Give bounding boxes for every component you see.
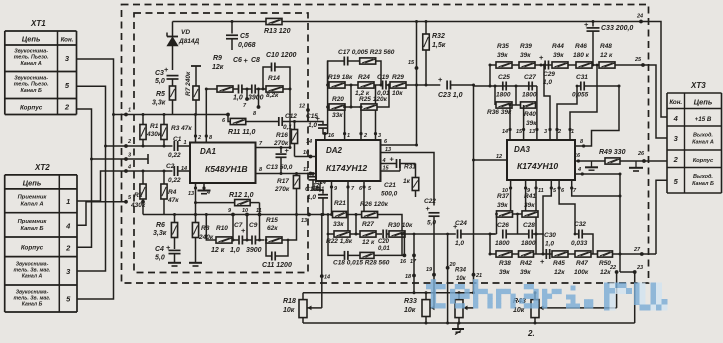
svg-text:C7: C7 xyxy=(234,222,243,229)
pad 12 xyxy=(306,108,310,112)
resistor R45 12к xyxy=(552,251,568,276)
svg-text:R15: R15 xyxy=(266,217,278,224)
svg-text:10: 10 xyxy=(303,150,309,156)
svg-text:Канал Б: Канал Б xyxy=(22,302,43,308)
svg-text:10к: 10к xyxy=(392,90,403,97)
resistor R9 12к xyxy=(212,55,233,92)
DA2 pin 9 stub xyxy=(331,181,333,215)
svg-text:39к: 39к xyxy=(497,52,508,59)
DA3 pin 16 wire and R49 330 xyxy=(574,149,644,170)
svg-text:R9: R9 xyxy=(213,55,222,62)
svg-text:R16: R16 xyxy=(276,132,288,139)
svg-text:Выход.: Выход. xyxy=(693,133,713,139)
svg-text:Корпус: Корпус xyxy=(21,245,44,252)
svg-text:Приемник: Приемник xyxy=(18,195,48,201)
svg-text:C29: C29 xyxy=(543,71,555,78)
svg-text:1,0: 1,0 xyxy=(230,247,240,254)
wire XT1 pin2 to pad 3 xyxy=(77,109,127,159)
svg-text:1,0: 1,0 xyxy=(455,240,464,247)
svg-text:27: 27 xyxy=(633,247,641,253)
pad 2 xyxy=(124,144,128,148)
svg-text:Выход.: Выход. xyxy=(693,174,713,180)
svg-text:DA3: DA3 xyxy=(514,145,531,154)
svg-text:R39: R39 xyxy=(520,43,532,50)
long wire lower xyxy=(303,322,635,324)
DA3 pin 7 riser xyxy=(572,180,620,196)
svg-text:R14: R14 xyxy=(268,75,280,82)
svg-text:DA1: DA1 xyxy=(200,147,217,156)
resistor R36 39к row xyxy=(487,85,512,117)
capacitor C16 1,0 xyxy=(305,183,328,216)
svg-text:XT1: XT1 xyxy=(30,19,46,28)
svg-text:+: + xyxy=(438,75,443,84)
svg-text:39к: 39к xyxy=(526,120,537,127)
resistor R39 39к xyxy=(519,43,535,68)
pin2 riser xyxy=(360,106,363,109)
DA1 pin 4 ground xyxy=(203,183,205,190)
resistor R3 47к xyxy=(161,113,192,146)
svg-text:C3: C3 xyxy=(155,70,164,77)
svg-text:1: 1 xyxy=(128,108,131,114)
svg-text:Приемник: Приемник xyxy=(18,219,48,225)
svg-text:R11 11,0: R11 11,0 xyxy=(228,129,255,136)
node 9 stub xyxy=(232,239,235,242)
capacitor C31 0,055 xyxy=(572,74,619,99)
DA3 pin 11 riser xyxy=(535,180,537,254)
wire pad1 input xyxy=(126,114,228,116)
svg-text:R45: R45 xyxy=(553,260,565,267)
node 21 column xyxy=(473,160,475,293)
node 7 stub xyxy=(242,88,252,90)
DA2 pin 13 wire xyxy=(381,153,435,206)
resistor R40 39к row xyxy=(512,85,537,128)
svg-text:1,0: 1,0 xyxy=(308,122,317,129)
resistor R6 3,3к xyxy=(153,213,178,249)
svg-text:C19: C19 xyxy=(377,74,389,81)
resistor R38 39к xyxy=(496,251,512,276)
wire R14 to output xyxy=(283,88,290,90)
riser pin 14 xyxy=(509,105,511,140)
svg-text:C30: C30 xyxy=(544,232,556,239)
resistor R7 240к xyxy=(185,66,201,115)
svg-text:14: 14 xyxy=(502,129,508,135)
svg-text:13: 13 xyxy=(529,129,535,135)
DA3 pin 9 riser xyxy=(525,180,527,214)
DA3 pin 10 riser xyxy=(510,180,512,214)
wire XT2 pin5 link xyxy=(77,115,114,300)
svg-text:1,0: 1,0 xyxy=(233,95,243,102)
capacitor C7 1,0 xyxy=(230,222,246,254)
svg-text:R41: R41 xyxy=(524,193,536,200)
svg-text:R22 1,8к: R22 1,8к xyxy=(326,238,353,245)
connector table XT2 xyxy=(5,163,77,312)
outer dashed board boundary xyxy=(122,5,649,284)
svg-text:10к: 10к xyxy=(283,307,295,314)
resistor R30 10к xyxy=(387,222,456,237)
DA1 pin 7 wire xyxy=(256,147,291,149)
svg-text:Корпус: Корпус xyxy=(693,158,714,164)
svg-text:1: 1 xyxy=(66,197,70,206)
svg-text:R8: R8 xyxy=(201,225,210,232)
wire pad2 to C1 xyxy=(126,145,173,147)
svg-text:R5: R5 xyxy=(156,91,165,98)
wire 26 to XT3 pin2 xyxy=(644,160,667,162)
riser pin 3 xyxy=(544,65,550,140)
riser pin 2 xyxy=(557,86,577,140)
svg-text:R49 330: R49 330 xyxy=(599,149,626,156)
svg-text:11: 11 xyxy=(538,188,544,194)
svg-text:3900: 3900 xyxy=(246,247,262,254)
resistor R10 12к xyxy=(211,225,232,254)
DA2 pin 3 stub xyxy=(375,85,377,140)
svg-text:+: + xyxy=(285,146,290,155)
svg-text:C27: C27 xyxy=(524,74,536,81)
capacitor C4 5,0 xyxy=(155,243,181,263)
svg-text:Канал А: Канал А xyxy=(22,274,43,280)
capacitor C22 5,0 xyxy=(424,198,440,308)
svg-text:2: 2 xyxy=(64,103,70,112)
capacitor C17 0,005 xyxy=(344,57,347,66)
svg-text:1800: 1800 xyxy=(496,92,511,99)
svg-text:+15 В: +15 В xyxy=(695,116,712,123)
svg-text:R17: R17 xyxy=(277,178,289,185)
svg-text:1800: 1800 xyxy=(522,92,537,99)
capacitor C29 1,0 xyxy=(539,53,555,86)
svg-text:12 к: 12 к xyxy=(362,239,375,246)
capacitor C2 0,22 xyxy=(166,163,190,184)
resistor R27 12к xyxy=(360,221,382,246)
svg-text:Капал А: Капал А xyxy=(20,202,43,208)
svg-text:3,3к: 3,3к xyxy=(153,230,167,237)
svg-text:14: 14 xyxy=(324,275,330,281)
resistor R26 120к xyxy=(347,201,403,234)
capacitor C26 1800 xyxy=(495,213,510,247)
DA2 pin 12 stub xyxy=(320,181,322,184)
ground at node 26 xyxy=(635,161,637,168)
svg-text:15: 15 xyxy=(408,60,415,66)
capacitor C27 1800 xyxy=(522,74,537,99)
vertical to DA2 pin6 xyxy=(416,22,418,146)
potentiometer R34 10к xyxy=(455,268,474,325)
svg-text:R29: R29 xyxy=(392,74,404,81)
resistor R48 12к xyxy=(599,43,615,68)
svg-text:1: 1 xyxy=(571,129,574,135)
svg-text:C20: C20 xyxy=(378,239,390,245)
resistor R46 180к xyxy=(573,43,592,68)
long wire upper xyxy=(303,292,474,294)
capacitor C3 5,0 xyxy=(155,65,179,85)
svg-text:C13 50,0: C13 50,0 xyxy=(266,164,293,171)
node 8 stub xyxy=(257,88,260,91)
node 26 xyxy=(642,159,646,163)
svg-text:1,0: 1,0 xyxy=(307,194,316,201)
left vertical link low xyxy=(489,234,491,254)
svg-text:R47: R47 xyxy=(576,260,588,267)
connector table XT1 xyxy=(5,19,77,115)
capacitor C23 1,0 xyxy=(438,75,474,99)
resistor R19 18к xyxy=(328,74,353,88)
svg-text:R34: R34 xyxy=(455,268,467,274)
svg-text:13: 13 xyxy=(301,218,307,224)
svg-text:12к: 12к xyxy=(554,269,565,276)
svg-text:VD: VD xyxy=(181,29,190,36)
svg-text:C15: C15 xyxy=(306,113,318,120)
capacitor C5 0,068 xyxy=(226,20,256,50)
pad 4 xyxy=(124,169,128,173)
svg-text:+: + xyxy=(539,53,544,62)
capacitor C30 1,0 xyxy=(540,232,556,266)
resistor R44 39к xyxy=(552,43,568,68)
svg-text:12: 12 xyxy=(496,154,502,160)
svg-text:DA2: DA2 xyxy=(326,146,343,155)
pin16 column xyxy=(327,61,329,134)
rail to XT3 pin4 xyxy=(641,22,667,118)
wire to DA2 pin 10 xyxy=(295,156,317,158)
ground bottom xyxy=(457,323,459,329)
resistor R14 8,2к xyxy=(266,75,283,99)
watermark tehnari.ru xyxy=(426,279,668,310)
svg-text:C24: C24 xyxy=(455,220,467,227)
svg-text:R46: R46 xyxy=(575,43,587,50)
svg-text:2: 2 xyxy=(197,135,201,141)
ground under R8 xyxy=(189,263,202,266)
svg-text:R27: R27 xyxy=(362,221,374,228)
svg-text:C11 1200: C11 1200 xyxy=(262,262,292,269)
svg-text:Цепь: Цепь xyxy=(22,35,41,44)
wire to DA3 pin 12 xyxy=(474,85,508,160)
node 23 xyxy=(620,272,635,323)
svg-text:R38: R38 xyxy=(499,260,511,267)
resistor R35 39к xyxy=(496,43,512,68)
svg-text:24: 24 xyxy=(636,14,643,20)
resistor R24 1,2к xyxy=(350,74,382,97)
svg-text:R40: R40 xyxy=(524,111,536,118)
svg-text:C10 1200: C10 1200 xyxy=(266,52,296,59)
wire pad3 stub xyxy=(126,158,148,160)
svg-text:3: 3 xyxy=(378,133,381,139)
svg-text:3,3к: 3,3к xyxy=(152,100,166,107)
svg-text:5,0: 5,0 xyxy=(155,255,165,262)
svg-text:430к: 430к xyxy=(146,131,162,138)
signal wire mid (C25 row) xyxy=(474,85,537,87)
svg-text:C9: C9 xyxy=(249,222,258,229)
svg-text:0,22: 0,22 xyxy=(168,177,181,184)
svg-text:C28: C28 xyxy=(523,222,535,229)
DA1 pin 8 wire xyxy=(256,173,317,175)
resistor R25 120к xyxy=(351,84,391,111)
DA1 pin 13 stub xyxy=(195,183,197,215)
svg-text:39к: 39к xyxy=(524,202,535,209)
potentiometer R43 10к xyxy=(513,272,617,325)
svg-text:XT3: XT3 xyxy=(690,81,706,90)
capacitor C25 1800 xyxy=(496,74,511,99)
resistor R13 120 in rail xyxy=(266,18,282,24)
resistor R2 430к xyxy=(130,170,146,215)
potentiometer R33 10к xyxy=(404,291,435,324)
svg-text:500,0: 500,0 xyxy=(381,191,398,198)
svg-text:R1: R1 xyxy=(150,123,159,130)
svg-text:C1: C1 xyxy=(173,136,182,143)
svg-text:3: 3 xyxy=(128,153,131,159)
riser pin 13 xyxy=(536,86,538,140)
capacitor C10 1200 feedback xyxy=(262,52,297,148)
svg-text:Звукоснима-: Звукоснима- xyxy=(14,49,48,55)
svg-text:1,5к: 1,5к xyxy=(432,42,446,49)
svg-text:+: + xyxy=(540,257,545,266)
svg-text:0,033: 0,033 xyxy=(571,240,588,247)
svg-text:тель. Пьезо.: тель. Пьезо. xyxy=(14,82,49,88)
svg-text:R13 120: R13 120 xyxy=(264,28,291,35)
svg-text:К174УН10: К174УН10 xyxy=(517,161,558,171)
svg-text:11: 11 xyxy=(256,208,262,214)
svg-text:25: 25 xyxy=(634,57,642,63)
resistor R50 12к xyxy=(598,251,613,276)
svg-text:11: 11 xyxy=(303,167,309,173)
wire R15 out xyxy=(282,215,297,241)
svg-text:XT2: XT2 xyxy=(34,163,50,172)
feedback row wire A xyxy=(206,88,217,90)
svg-text:2: 2 xyxy=(65,243,71,252)
node 27 xyxy=(619,253,622,256)
resistor R32 1,5к xyxy=(423,20,446,87)
svg-text:4: 4 xyxy=(127,165,131,171)
svg-text:4: 4 xyxy=(673,114,679,123)
svg-text:R18: R18 xyxy=(283,298,296,305)
pin1 riser xyxy=(344,106,346,108)
svg-text:0,22: 0,22 xyxy=(168,152,181,159)
DA3 pin 6 riser xyxy=(559,180,575,234)
lower tone wire xyxy=(490,253,620,255)
pad 5 xyxy=(124,200,128,204)
resistor R16 270к xyxy=(273,120,298,157)
svg-text:26: 26 xyxy=(637,151,645,157)
resistor R5 3,3к xyxy=(152,79,176,115)
svg-text:R44: R44 xyxy=(552,43,564,50)
DA1 pin 8 stub xyxy=(205,89,207,143)
svg-text:R42: R42 xyxy=(520,260,532,267)
trimmer R31 1к xyxy=(403,164,419,198)
resistor R15 62к xyxy=(266,217,282,243)
svg-text:12 к: 12 к xyxy=(211,247,225,254)
svg-text:+: + xyxy=(164,65,169,74)
svg-text:R26 120к: R26 120к xyxy=(360,201,389,208)
lower bias wire xyxy=(143,214,333,216)
svg-text:+: + xyxy=(584,20,589,29)
capacitor C11 1200 feedback xyxy=(262,239,292,269)
node 10 stub xyxy=(242,239,252,241)
svg-text:12 к: 12 к xyxy=(600,52,613,59)
svg-text:+: + xyxy=(426,204,431,213)
svg-text:R7 240к: R7 240к xyxy=(185,71,192,96)
svg-text:C23 1,0: C23 1,0 xyxy=(438,92,463,99)
svg-text:4: 4 xyxy=(65,221,71,230)
svg-text:Канал Б: Канал Б xyxy=(692,181,714,187)
DA2 pin 4 15 and C21 xyxy=(381,155,416,198)
svg-text:8,2к: 8,2к xyxy=(266,92,279,99)
resistor R41 39к xyxy=(513,193,539,217)
svg-text:12: 12 xyxy=(299,104,305,110)
resistor R8 240к xyxy=(192,213,213,263)
pad 1 xyxy=(124,113,128,117)
capacitor C20 0,01 xyxy=(378,230,390,253)
capacitor C19 0,01 xyxy=(377,74,390,97)
op-amp DA3 К174УН10 xyxy=(507,140,575,180)
svg-text:C5: C5 xyxy=(240,33,249,40)
resistor R22 1,8к xyxy=(326,231,360,245)
svg-text:R36 39к: R36 39к xyxy=(487,109,512,116)
ground under C4 xyxy=(168,263,181,266)
node 19 pad xyxy=(432,273,436,277)
svg-text:33к: 33к xyxy=(333,221,344,228)
capacitor C18 0,015 xyxy=(345,251,348,260)
svg-text:33к: 33к xyxy=(332,112,343,119)
pads 16 17 xyxy=(403,234,405,255)
svg-text:180 к: 180 к xyxy=(573,52,590,59)
svg-text:R12 1,0: R12 1,0 xyxy=(229,192,254,199)
svg-text:К548УН1В: К548УН1В xyxy=(205,164,248,174)
+15V rail xyxy=(173,21,642,23)
svg-text:16: 16 xyxy=(328,133,335,139)
svg-text:15: 15 xyxy=(383,166,390,172)
svg-text:270к: 270к xyxy=(274,186,290,193)
svg-text:39к: 39к xyxy=(520,52,531,59)
svg-text:0,01: 0,01 xyxy=(378,246,390,252)
svg-text:R2: R2 xyxy=(134,192,143,199)
node 11 stub xyxy=(258,239,261,242)
node 20 pad xyxy=(447,234,449,323)
wire XT2 pin3 link xyxy=(77,146,106,271)
wire XT1 pin3 to pad 1 xyxy=(77,59,127,115)
svg-text:Д814Д: Д814Д xyxy=(178,38,200,45)
svg-text:C25: C25 xyxy=(498,74,510,81)
capacitor C28 1800 xyxy=(506,213,544,247)
svg-text:1: 1 xyxy=(347,133,350,139)
svg-text:R31: R31 xyxy=(404,164,416,171)
svg-text:13: 13 xyxy=(188,191,194,197)
DA2 pin 16 stub xyxy=(323,132,326,135)
svg-text:10: 10 xyxy=(242,208,248,214)
link R19-R24 to R20-R25 xyxy=(350,85,352,107)
svg-text:R37: R37 xyxy=(497,193,509,200)
resistor R20 33к xyxy=(328,96,351,119)
svg-text:R32: R32 xyxy=(432,33,445,40)
svg-text:1к: 1к xyxy=(403,178,411,185)
capacitor C24 1,0 xyxy=(453,220,495,247)
svg-text:C33 200,0: C33 200,0 xyxy=(601,25,633,32)
svg-text:14: 14 xyxy=(181,166,187,172)
capacitor C33 200,0 xyxy=(584,20,633,66)
DA2 pin 1 stub xyxy=(344,107,346,140)
svg-text:R19 18к: R19 18к xyxy=(328,74,353,81)
feedback row wire B xyxy=(206,215,216,241)
svg-text:12к: 12к xyxy=(212,64,224,71)
svg-text:1800: 1800 xyxy=(495,240,510,247)
capacitor C6 1,0 xyxy=(233,56,249,102)
svg-text:19: 19 xyxy=(426,267,433,273)
node 22 xyxy=(615,270,619,274)
resistor R28 560 xyxy=(333,233,403,267)
svg-text:5,0: 5,0 xyxy=(155,78,165,85)
capacitor C14 0,1 xyxy=(309,172,327,193)
svg-text:R10: R10 xyxy=(216,225,228,232)
svg-text:C32: C32 xyxy=(574,221,586,228)
svg-text:39к: 39к xyxy=(520,269,531,276)
svg-text:1: 1 xyxy=(184,140,187,146)
svg-text:C4: C4 xyxy=(155,246,164,253)
svg-text:1800: 1800 xyxy=(521,240,536,247)
svg-text:16: 16 xyxy=(400,259,407,265)
svg-text:21: 21 xyxy=(475,273,482,279)
